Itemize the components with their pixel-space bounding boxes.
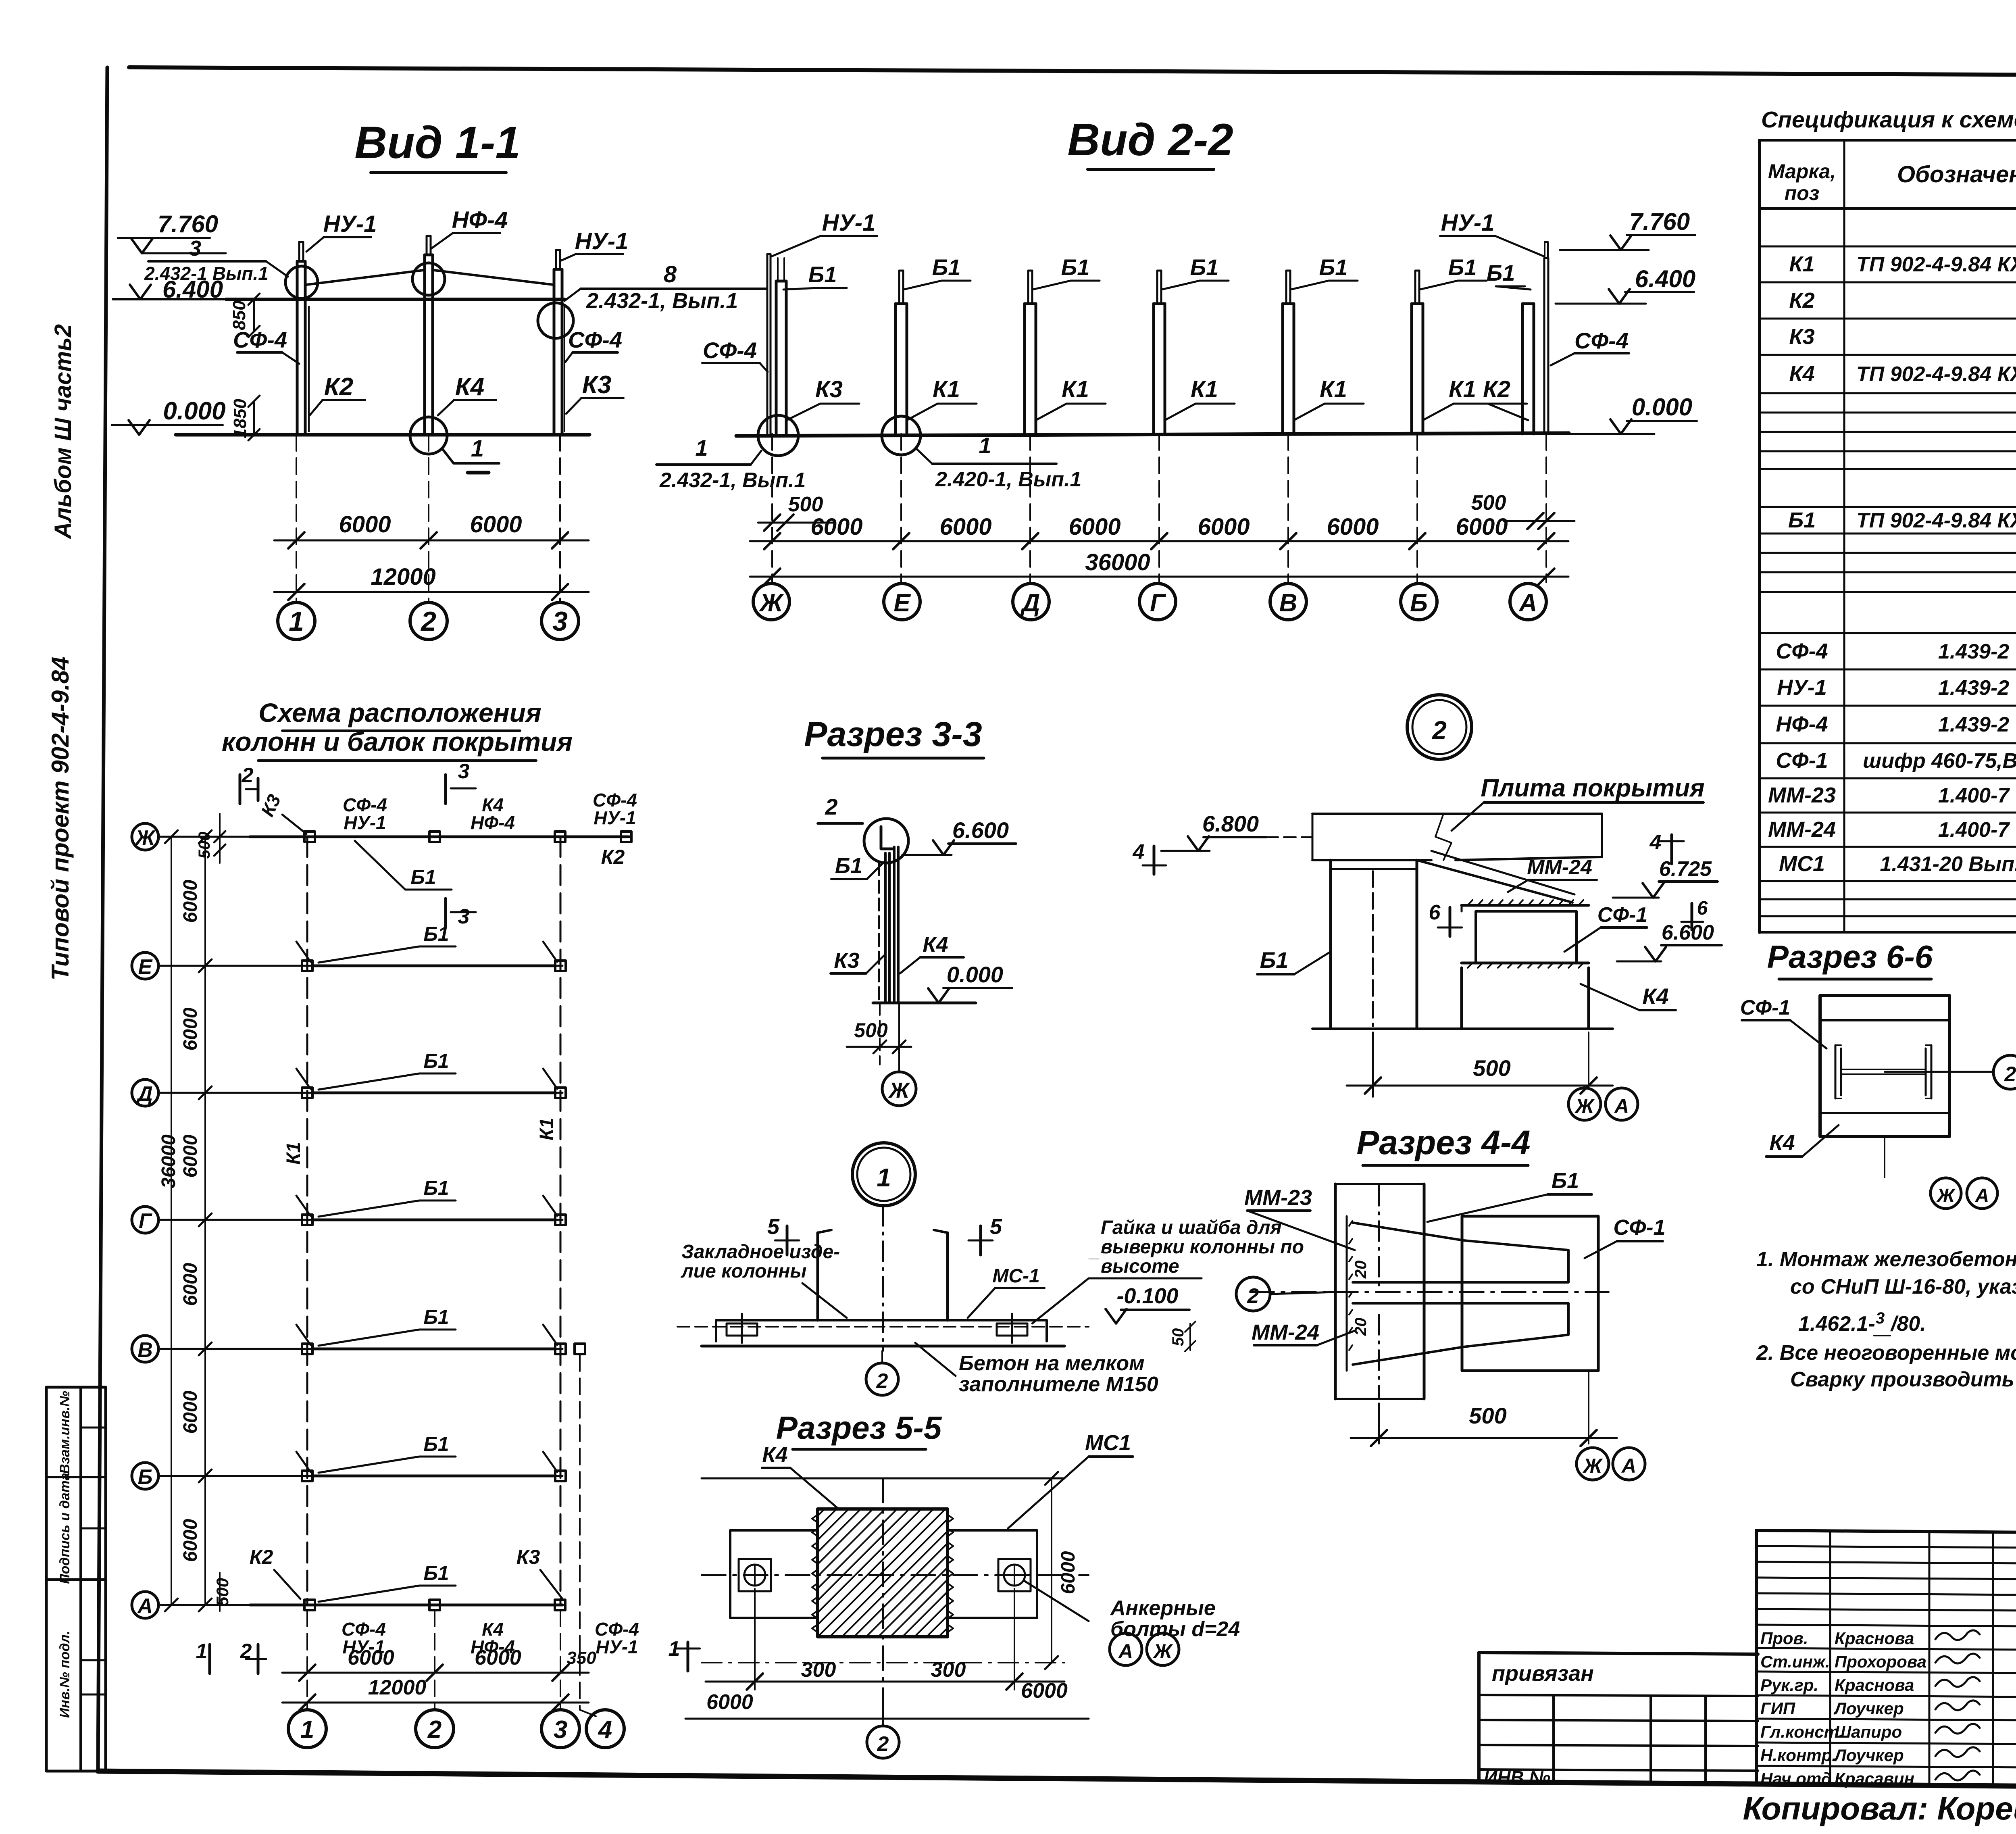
svg-text:Е: Е xyxy=(138,955,153,979)
svg-text:Д: Д xyxy=(1020,589,1040,617)
svg-text:6000: 6000 xyxy=(1198,514,1250,540)
svg-text:Лоучкер: Лоучкер xyxy=(1833,1699,1904,1718)
svg-text:Разрез 6-6: Разрез 6-6 xyxy=(1767,939,1933,975)
svg-text:К3: К3 xyxy=(516,1546,540,1568)
svg-text:Инв.№ подл.: Инв.№ подл. xyxy=(57,1631,73,1718)
svg-text:А: А xyxy=(1118,1640,1133,1663)
svg-text:2: 2 xyxy=(877,1732,889,1756)
svg-text:К4: К4 xyxy=(455,373,485,401)
svg-text:К3: К3 xyxy=(815,376,843,402)
svg-text:Б1: Б1 xyxy=(932,254,961,280)
svg-text:350: 350 xyxy=(566,1648,596,1668)
svg-text:1.400-7: 1.400-7 xyxy=(1938,818,2010,842)
svg-text:К2: К2 xyxy=(324,373,354,401)
svg-text:К1: К1 xyxy=(1449,376,1476,402)
svg-text:Б1: Б1 xyxy=(1319,254,1348,280)
svg-text:СФ-1: СФ-1 xyxy=(1597,903,1647,927)
svg-text:Б1: Б1 xyxy=(835,854,862,878)
svg-text:Пров.: Пров. xyxy=(1760,1629,1808,1648)
svg-text:850: 850 xyxy=(229,300,249,330)
svg-text:Взам.инв.№: Взам.инв.№ xyxy=(57,1391,73,1474)
svg-text:К1: К1 xyxy=(536,1118,558,1140)
svg-text:Нач.отд: Нач.отд xyxy=(1760,1769,1832,1788)
svg-text:8: 8 xyxy=(664,261,677,288)
svg-text:Ж: Ж xyxy=(1152,1640,1173,1663)
svg-text:НФ-4: НФ-4 xyxy=(452,207,508,233)
svg-text:лие колонны: лие колонны xyxy=(681,1261,806,1282)
svg-text:ТП 902-4-9.84 КЖИ. Б1: ТП 902-4-9.84 КЖИ. Б1 xyxy=(1856,509,2016,532)
svg-text:7.760: 7.760 xyxy=(1629,208,1690,235)
svg-text:Ж: Ж xyxy=(1936,1185,1956,1207)
svg-text:2: 2 xyxy=(2004,1063,2016,1086)
svg-text:4: 4 xyxy=(1649,831,1662,854)
svg-text:НФ-4: НФ-4 xyxy=(1776,712,1828,736)
svg-text:СФ-4: СФ-4 xyxy=(568,327,622,352)
svg-text:2: 2 xyxy=(420,606,436,637)
svg-text:В: В xyxy=(137,1338,153,1362)
svg-text:6000: 6000 xyxy=(1021,1679,1068,1703)
svg-text:А: А xyxy=(1518,589,1537,617)
svg-text:1.400-7: 1.400-7 xyxy=(1938,784,2010,807)
svg-text:12000: 12000 xyxy=(371,564,435,590)
svg-text:3: 3 xyxy=(458,760,470,783)
svg-text:3: 3 xyxy=(554,1716,567,1744)
svg-text:Г: Г xyxy=(139,1209,152,1233)
svg-text:ММ-23: ММ-23 xyxy=(1768,783,1836,807)
svg-text:Разрез 5-5: Разрез 5-5 xyxy=(776,1410,942,1446)
svg-text:Ж: Ж xyxy=(758,589,784,617)
svg-text:Подпись и дата: Подпись и дата xyxy=(57,1473,73,1584)
svg-text:СФ-4: СФ-4 xyxy=(233,327,287,352)
svg-text:Бетон на мелком: Бетон на мелком xyxy=(959,1352,1145,1375)
svg-text:1. Монтаж железобетонных конст: 1. Монтаж железобетонных конструкций осу… xyxy=(1756,1248,2016,1271)
svg-text:5: 5 xyxy=(767,1215,780,1239)
svg-text:Б1: Б1 xyxy=(1190,254,1219,280)
svg-text:Лоучкер: Лоучкер xyxy=(1833,1746,1904,1765)
svg-text:300: 300 xyxy=(801,1658,836,1682)
svg-text:Б1: Б1 xyxy=(1260,947,1289,973)
svg-text:2: 2 xyxy=(427,1716,442,1744)
svg-text:К2: К2 xyxy=(250,1546,273,1568)
svg-text:К1: К1 xyxy=(283,1142,304,1165)
svg-text:К1: К1 xyxy=(1320,376,1347,402)
svg-text:СФ-4: СФ-4 xyxy=(1776,639,1828,663)
svg-text:К2: К2 xyxy=(601,846,625,868)
svg-text:ММ-23: ММ-23 xyxy=(1244,1186,1312,1210)
svg-text:СФ-1: СФ-1 xyxy=(1613,1215,1665,1240)
svg-text:5: 5 xyxy=(990,1215,1002,1239)
svg-text:6: 6 xyxy=(1429,901,1441,924)
svg-text:36000: 36000 xyxy=(1085,549,1150,575)
svg-text:Ст.инж.: Ст.инж. xyxy=(1760,1652,1830,1671)
svg-text:6000: 6000 xyxy=(180,1390,201,1434)
svg-text:6000: 6000 xyxy=(339,511,391,538)
svg-text:500: 500 xyxy=(213,1578,232,1606)
svg-text:А: А xyxy=(1975,1185,1989,1207)
svg-text:привязан: привязан xyxy=(1492,1661,1594,1686)
svg-text:1.439-2: 1.439-2 xyxy=(1938,676,2009,700)
svg-text:6000: 6000 xyxy=(1456,514,1508,540)
svg-text:20: 20 xyxy=(1352,1318,1370,1336)
svg-text:НУ-1: НУ-1 xyxy=(596,1636,638,1657)
svg-text:К2: К2 xyxy=(1483,376,1510,402)
svg-text:Б: Б xyxy=(1410,589,1428,617)
svg-text:300: 300 xyxy=(931,1658,966,1682)
svg-text:Б: Б xyxy=(138,1465,153,1489)
svg-text:выверки колонны по: выверки колонны по xyxy=(1101,1236,1304,1258)
svg-text:ММ-24: ММ-24 xyxy=(1527,856,1592,879)
svg-text:Вид 2-2: Вид 2-2 xyxy=(1067,115,1233,165)
svg-text:Г: Г xyxy=(1150,589,1166,617)
svg-text:Б1: Б1 xyxy=(1552,1169,1579,1193)
svg-text:Вид 1-1: Вид 1-1 xyxy=(354,117,521,168)
svg-text:Копировал: Корецкая: Копировал: Корецкая xyxy=(1743,1790,2016,1826)
svg-text:6000: 6000 xyxy=(1068,514,1120,540)
svg-text:6000: 6000 xyxy=(475,1646,521,1669)
svg-text:НУ-1: НУ-1 xyxy=(1441,210,1495,236)
svg-text:со СНиП Ш-16-80, указаниями се: со СНиП Ш-16-80, указаниями серии 1.423-… xyxy=(1790,1275,2016,1298)
svg-text:6000: 6000 xyxy=(1327,514,1379,540)
svg-text:Б1: Б1 xyxy=(423,1177,449,1199)
svg-text:6000: 6000 xyxy=(1058,1551,1079,1594)
svg-text:6000: 6000 xyxy=(180,1007,201,1050)
svg-text:500: 500 xyxy=(854,1019,888,1042)
svg-text:К3: К3 xyxy=(582,371,612,399)
svg-text:Сварку производить электродами: Сварку производить электродами типа Э42А… xyxy=(1790,1368,2016,1391)
svg-text:2: 2 xyxy=(876,1369,888,1393)
svg-text:6000: 6000 xyxy=(470,511,522,538)
svg-text:поз: поз xyxy=(1785,182,1820,204)
svg-text:В: В xyxy=(1279,589,1297,617)
svg-text:50: 50 xyxy=(1169,1328,1187,1346)
svg-text:Марка,: Марка, xyxy=(1768,160,1836,183)
svg-text:К1: К1 xyxy=(1062,376,1089,402)
svg-text:12000: 12000 xyxy=(368,1676,427,1699)
svg-text:500: 500 xyxy=(1473,1055,1510,1081)
svg-text:ТП 902-4-9.84 КЖИ. К4: ТП 902-4-9.84 КЖИ. К4 xyxy=(1856,363,2016,386)
svg-text:Ж: Ж xyxy=(134,826,156,850)
svg-text:20: 20 xyxy=(1352,1261,1370,1279)
svg-text:Краснова: Краснова xyxy=(1835,1676,1914,1694)
svg-text:1: 1 xyxy=(471,436,484,462)
svg-text:Обозначение: Обозначение xyxy=(1897,161,2016,188)
svg-text:2.420-1, Вып.1: 2.420-1, Вып.1 xyxy=(935,468,1081,491)
svg-text:Б1: Б1 xyxy=(1487,260,1515,286)
svg-text:НУ-1: НУ-1 xyxy=(594,807,636,828)
svg-text:Анкерные: Анкерные xyxy=(1110,1596,1216,1620)
svg-text:3: 3 xyxy=(189,236,201,261)
svg-text:Гл.конст.: Гл.конст. xyxy=(1760,1722,1843,1741)
svg-text:500: 500 xyxy=(196,832,213,859)
svg-text:Д: Д xyxy=(136,1082,153,1106)
svg-text:Ж: Ж xyxy=(1574,1095,1595,1117)
svg-text:МС-1: МС-1 xyxy=(992,1265,1039,1287)
svg-text:Краснова: Краснова xyxy=(1835,1629,1914,1648)
svg-text:МС1: МС1 xyxy=(1779,852,1825,876)
svg-text:-0.100: -0.100 xyxy=(1116,1284,1178,1308)
svg-text:36000: 36000 xyxy=(158,1134,179,1188)
svg-text:2: 2 xyxy=(1432,716,1447,745)
svg-text:2.432-1, Вып.1: 2.432-1, Вып.1 xyxy=(586,289,738,313)
svg-text:А: А xyxy=(1621,1455,1636,1477)
svg-text:6.725: 6.725 xyxy=(1659,857,1712,881)
svg-text:1: 1 xyxy=(695,435,708,461)
svg-text:1.439-2: 1.439-2 xyxy=(1938,713,2009,736)
svg-text:Альбом Ш часть2: Альбом Ш часть2 xyxy=(50,324,76,540)
svg-text:заполнителе М150: заполнителе М150 xyxy=(959,1373,1158,1396)
svg-text:2: 2 xyxy=(825,794,837,819)
svg-text:1: 1 xyxy=(196,1640,208,1663)
svg-text:К3: К3 xyxy=(834,948,859,973)
svg-text:К1: К1 xyxy=(933,376,960,402)
svg-text:К4: К4 xyxy=(762,1442,787,1467)
svg-text:К2: К2 xyxy=(1789,288,1814,313)
svg-text:6.800: 6.800 xyxy=(1202,811,1259,836)
svg-text:500: 500 xyxy=(1469,1403,1506,1428)
svg-text:6000: 6000 xyxy=(180,1519,201,1562)
svg-text:СФ-1: СФ-1 xyxy=(1740,996,1790,1019)
svg-text:К4: К4 xyxy=(1789,362,1814,386)
svg-text:0.000: 0.000 xyxy=(1632,394,1692,421)
svg-text:Б1: Б1 xyxy=(423,1562,449,1584)
svg-text:1: 1 xyxy=(979,433,991,458)
svg-text:2. Все неоговоренные монтажные: 2. Все неоговоренные монтажные швы прини… xyxy=(1756,1341,2016,1365)
svg-text:НУ-1: НУ-1 xyxy=(575,228,629,254)
svg-text:ГИП: ГИП xyxy=(1760,1699,1795,1718)
svg-text:4: 4 xyxy=(1133,840,1145,864)
svg-text:шифр 460-75,Вып.1-1: шифр 460-75,Вып.1-1 xyxy=(1863,749,2016,773)
svg-text:6: 6 xyxy=(1697,898,1708,919)
svg-text:СФ-1: СФ-1 xyxy=(1776,748,1828,773)
svg-text:1: 1 xyxy=(289,606,304,637)
svg-text:7.760: 7.760 xyxy=(158,210,218,238)
svg-text:К3: К3 xyxy=(1789,325,1814,349)
svg-text:Прохорова: Прохорова xyxy=(1835,1652,1926,1671)
svg-text:6000: 6000 xyxy=(939,514,991,540)
svg-text:Б1: Б1 xyxy=(1448,254,1477,280)
svg-text:3: 3 xyxy=(458,905,470,928)
svg-text:колонн и балок покрытия: колонн и балок покрытия xyxy=(222,727,573,757)
svg-text:500: 500 xyxy=(788,493,823,516)
svg-text:6000: 6000 xyxy=(180,1263,201,1306)
svg-text:6.600: 6.600 xyxy=(1662,921,1714,944)
svg-text:/80.: /80. xyxy=(1890,1312,1926,1336)
svg-text:К4: К4 xyxy=(1769,1131,1795,1155)
svg-text:Б1: Б1 xyxy=(410,866,436,888)
svg-text:6000: 6000 xyxy=(706,1690,753,1714)
svg-text:6.600: 6.600 xyxy=(952,817,1009,843)
svg-text:Плита покрытия: Плита покрытия xyxy=(1481,774,1704,802)
svg-text:Б1: Б1 xyxy=(1061,254,1090,280)
svg-text:Типовой проект 902-4-9.84: Типовой проект 902-4-9.84 xyxy=(47,657,74,981)
svg-text:2: 2 xyxy=(1247,1284,1259,1308)
svg-text:2: 2 xyxy=(242,764,254,787)
svg-text:К1: К1 xyxy=(1789,252,1814,276)
svg-text:ИНВ №: ИНВ № xyxy=(1484,1767,1550,1788)
svg-text:Б1: Б1 xyxy=(423,1050,449,1072)
svg-text:3: 3 xyxy=(1876,1309,1885,1327)
svg-text:Б1: Б1 xyxy=(423,1433,449,1455)
svg-text:МС1: МС1 xyxy=(1085,1431,1131,1455)
svg-text:Шапиро: Шапиро xyxy=(1835,1722,1902,1741)
svg-text:4: 4 xyxy=(598,1716,612,1744)
svg-text:высоте: высоте xyxy=(1101,1256,1179,1277)
svg-text:Н.контр.: Н.контр. xyxy=(1760,1746,1837,1765)
svg-text:6000: 6000 xyxy=(180,879,201,923)
svg-text:2.432-1, Вып.1: 2.432-1, Вып.1 xyxy=(659,469,806,492)
svg-text:НУ-1: НУ-1 xyxy=(1777,675,1827,700)
svg-text:Разрез 3-3: Разрез 3-3 xyxy=(804,715,982,754)
svg-text:Б1: Б1 xyxy=(1788,508,1816,532)
svg-text:СФ-4: СФ-4 xyxy=(1574,328,1629,353)
svg-text:Схема расположения: Схема расположения xyxy=(258,698,541,727)
svg-text:6000: 6000 xyxy=(348,1646,394,1669)
svg-text:Б1: Б1 xyxy=(808,262,837,287)
svg-text:Закладное изде-: Закладное изде- xyxy=(681,1241,840,1263)
svg-text:НФ-4: НФ-4 xyxy=(471,812,515,833)
svg-text:А: А xyxy=(1614,1095,1629,1117)
svg-text:Б1: Б1 xyxy=(423,1306,449,1328)
svg-text:Е: Е xyxy=(893,589,911,617)
svg-text:НУ-1: НУ-1 xyxy=(323,211,377,237)
svg-text:К4: К4 xyxy=(923,932,948,957)
svg-text:1: 1 xyxy=(300,1716,314,1744)
svg-text:ТП 902-4-9.84 КЖИ. К1 -: ТП 902-4-9.84 КЖИ. К1 - xyxy=(1856,253,2016,276)
svg-text:Ж: Ж xyxy=(1582,1455,1603,1477)
svg-text:А: А xyxy=(137,1594,153,1618)
svg-text:0.000: 0.000 xyxy=(163,397,225,425)
svg-text:Разрез 4-4: Разрез 4-4 xyxy=(1356,1123,1530,1161)
svg-text:1850: 1850 xyxy=(230,399,250,438)
svg-text:НУ-1: НУ-1 xyxy=(822,210,876,236)
svg-text:Спецификация к схеме расположе: Спецификация к схеме расположения колонн… xyxy=(1761,107,2016,133)
svg-text:К4: К4 xyxy=(1642,984,1669,1009)
svg-text:1.462.1-: 1.462.1- xyxy=(1798,1312,1875,1336)
svg-text:6.400: 6.400 xyxy=(1635,265,1695,292)
svg-text:1: 1 xyxy=(877,1163,891,1192)
svg-text:ММ-24: ММ-24 xyxy=(1252,1320,1319,1344)
svg-text:Гайка и шайба для: Гайка и шайба для xyxy=(1101,1217,1282,1238)
svg-text:1.439-2: 1.439-2 xyxy=(1938,640,2009,663)
svg-text:6000: 6000 xyxy=(810,514,862,540)
svg-text:500: 500 xyxy=(1471,491,1506,515)
svg-text:Ж: Ж xyxy=(888,1078,910,1102)
svg-text:К3: К3 xyxy=(257,791,285,819)
svg-text:Рук.гр.: Рук.гр. xyxy=(1760,1676,1818,1694)
svg-text:К1: К1 xyxy=(1191,376,1218,402)
svg-text:6000: 6000 xyxy=(180,1134,201,1178)
svg-text:3: 3 xyxy=(552,606,568,637)
svg-text:0.000: 0.000 xyxy=(947,962,1003,987)
svg-text:ММ-24: ММ-24 xyxy=(1768,817,1836,842)
svg-text:1.431-20 Вып.7 ч.2: 1.431-20 Вып.7 ч.2 xyxy=(1880,852,2016,876)
svg-text:Красавин: Красавин xyxy=(1835,1769,1914,1788)
svg-text:НУ-1: НУ-1 xyxy=(344,812,386,833)
svg-text:СФ-4: СФ-4 xyxy=(703,338,757,363)
